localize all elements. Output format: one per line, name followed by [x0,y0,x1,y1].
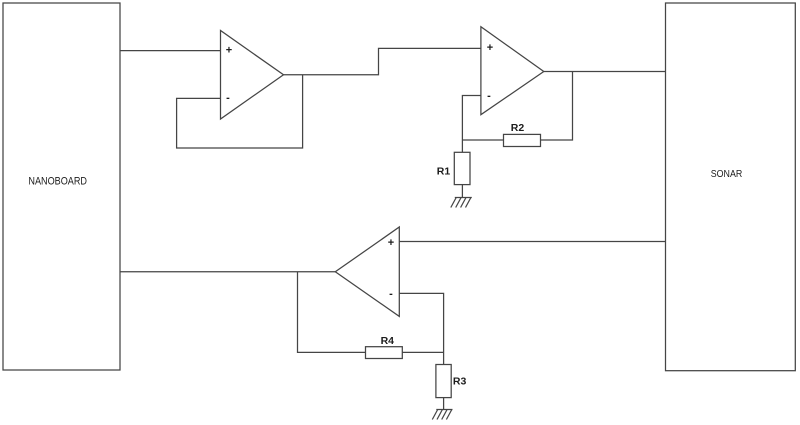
svg-text:R2: R2 [511,122,525,134]
resistor R4 [366,347,403,359]
NANOBOARD block [3,3,120,370]
wire R4 right to node B [402,351,443,353]
svg-text:SONAR: SONAR [711,168,743,180]
wire node A to R2 left [462,139,503,141]
svg-text:R4: R4 [381,335,395,347]
op-amp U1 [221,31,284,120]
resistor R1 [454,152,470,184]
wire U1 output to U2 + input [284,48,481,74]
resistor R3 [436,365,451,398]
svg-text:+: + [487,42,493,54]
svg-text:-: - [226,92,230,104]
svg-text:R1: R1 [437,166,451,178]
op-amp U2 [481,27,544,115]
wire R1 bottom to ground [461,185,463,198]
wire U2 - input to node A [462,96,481,153]
svg-text:+: + [226,45,232,57]
wire NANOBOARD to U1 + input [120,50,221,52]
op-amp U3 (mirrored) [335,227,399,316]
wire R3 bottom to ground [443,398,445,410]
ground below R1 [451,198,472,208]
svg-text:NANOBOARD: NANOBOARD [28,176,87,188]
wire U3 - input to node B and R3 top [399,293,443,364]
SONAR block [666,3,796,371]
ground below R3 [432,410,452,420]
svg-text:-: - [389,288,393,300]
svg-text:+: + [388,237,394,249]
resistor R2 [504,134,541,146]
wire U1 feedback loop output to - input [177,75,303,148]
wire U3 feedback branch to R4 left [298,272,366,353]
svg-text:-: - [487,90,491,102]
wire U2 output to SONAR [544,71,666,73]
wire U3 output to NANOBOARD [120,271,335,273]
svg-text:R3: R3 [453,376,467,388]
wire SONAR to U3 + input [399,241,665,243]
wire R2 right to U2 output [541,72,573,141]
